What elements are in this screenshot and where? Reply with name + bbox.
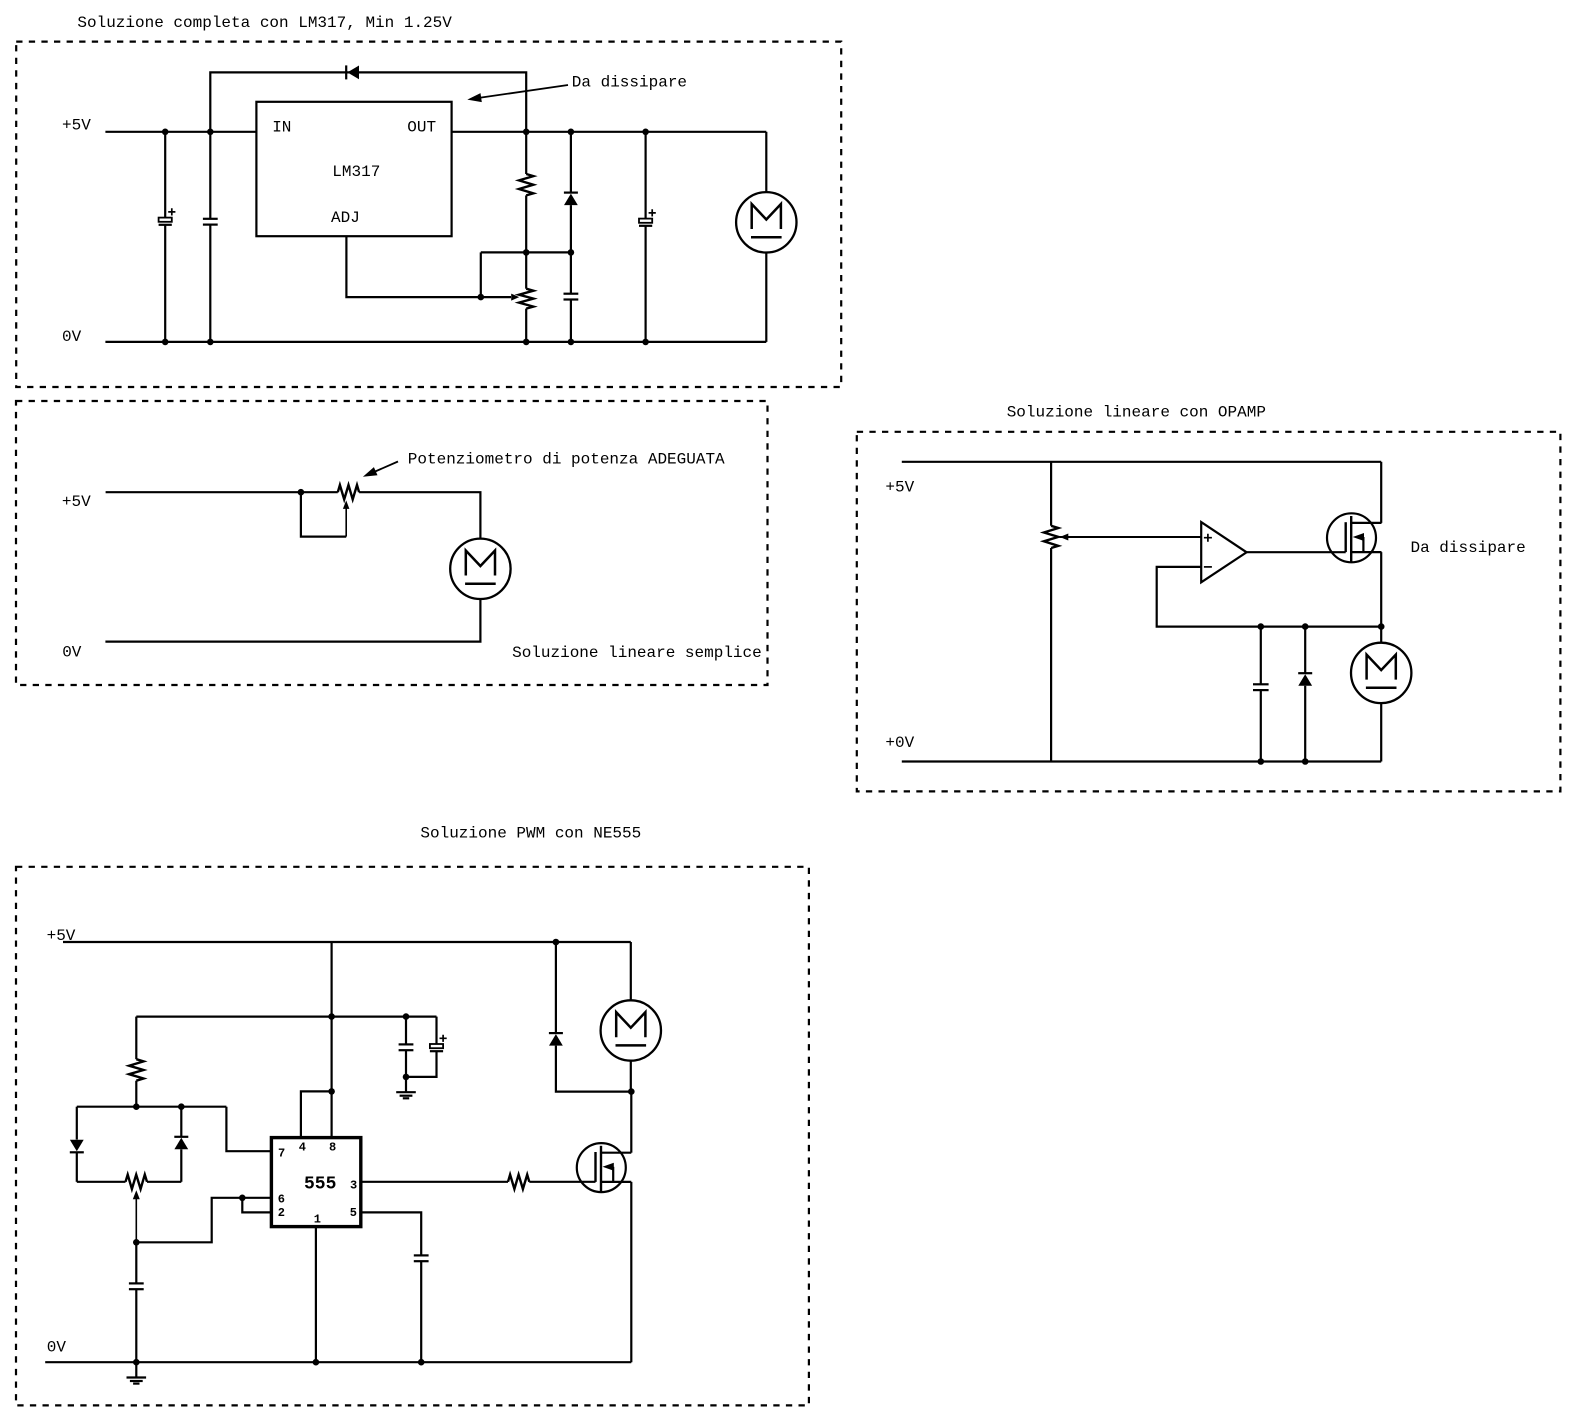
node: junction motor/diode/drain — [628, 1088, 635, 1095]
diode D3 flyback — [1304, 627, 1306, 674]
svg-text:4: 4 — [299, 1140, 306, 1154]
wire +5V rail (circuit 3) — [902, 461, 1381, 463]
node: junction C2 on 0V rail — [207, 339, 214, 346]
resistor R3 charge — [135, 1017, 137, 1060]
node: junction C4 on 0V rail — [642, 339, 649, 346]
wire drain to +5V rail — [1380, 462, 1382, 523]
node: junction R1 on OUT rail — [523, 129, 530, 136]
capacitor C9 control voltage filter — [414, 1254, 429, 1256]
wire drain up to motor node — [630, 1092, 632, 1153]
subcircuit boundary box 4: NE555 PWM solution — [16, 867, 809, 1406]
wire diode row to PWM potentiometer ends — [77, 1181, 182, 1183]
wire from potentiometer to motor (circuit 2) — [359, 492, 480, 538]
subcircuit boundary box 1: LM317 solution — [16, 42, 841, 387]
wiper arrow of potentiometer P2 — [1060, 534, 1069, 541]
svg-text:+5V: +5V — [62, 117, 91, 135]
node: junction wiper/cap/threshold — [133, 1239, 140, 1246]
arrow pointing to LM317 as element to dissipate — [478, 85, 568, 98]
wire wiper down to threshold node — [135, 1198, 137, 1242]
node: junction R2 on 0V rail — [523, 339, 530, 346]
svg-text:+5V: +5V — [62, 493, 91, 511]
wire riser from ADJ wire to node row — [480, 252, 482, 297]
wire wiper to op-amp non-inverting input — [1060, 536, 1202, 538]
wire threshold node to pins 6 and 2 — [136, 1198, 271, 1243]
wire timing branch from Vcc riser to decoupling caps — [136, 1015, 436, 1017]
svg-text:LM317: LM317 — [332, 163, 380, 181]
subcircuit boundary box 3: OPAMP linear solution — [857, 432, 1561, 792]
wire from input rail up and over to OUT (protection diode branch) — [210, 72, 526, 131]
diode D4 steering (discharge) — [76, 1107, 78, 1140]
node: junction wiper tap — [298, 489, 305, 496]
node: junction C2/diode branch on +5V rail — [207, 129, 214, 136]
wire from ADJ pin of LM317 — [346, 236, 480, 297]
ground symbol on 0V rail — [135, 1362, 137, 1377]
svg-text:2: 2 — [278, 1206, 285, 1220]
timer U3 555 — [271, 1138, 360, 1227]
wire pin 1 to 0V rail — [315, 1227, 317, 1363]
svg-text:Da dissipare: Da dissipare — [572, 74, 687, 92]
wire +5V rail to potentiometer (circuit 2) — [106, 491, 338, 493]
wire pin 4 reset tie to Vcc — [301, 1091, 332, 1136]
capacitor C6 timing — [135, 1242, 137, 1283]
transistor Q1 MOSFET (da dissipare) — [1327, 513, 1376, 562]
motor M3 — [1380, 627, 1382, 643]
diode D6 flyback across motor — [555, 942, 557, 1033]
svg-text:7: 7 — [278, 1146, 285, 1160]
capacitor C8 electrolytic supply — [435, 1017, 437, 1044]
svg-text:5: 5 — [350, 1206, 357, 1220]
motor M4 — [630, 942, 632, 1000]
node: junction D2 on OUT rail — [568, 129, 575, 136]
wiper arrow of potentiometer P3 — [133, 1190, 140, 1199]
node: junction motor on source node — [1378, 623, 1385, 630]
svg-text:1: 1 — [314, 1212, 321, 1226]
resistor R4 gate — [508, 1175, 529, 1189]
capacitor C7 supply decoupling — [405, 1017, 407, 1045]
svg-text:+0V: +0V — [885, 734, 914, 752]
svg-text:555: 555 — [304, 1174, 336, 1194]
wire 0V rail (circuit 3) — [902, 760, 1381, 762]
svg-text:IN: IN — [272, 119, 291, 137]
wiper arrow into potentiometer R2 — [481, 296, 511, 298]
wire pin 5 to filter cap — [361, 1212, 421, 1255]
node: junction C3 on 0V rail — [568, 339, 575, 346]
svg-text:ADJ: ADJ — [331, 209, 360, 227]
capacitor C2 input bypass — [209, 132, 211, 219]
svg-text:+5V: +5V — [885, 478, 914, 496]
svg-text:Potenziometro di potenza ADEGU: Potenziometro di potenza ADEGUATA — [408, 450, 725, 468]
arrow pointing to potentiometer P1 — [374, 462, 398, 473]
wire steering diode top row — [77, 1106, 227, 1108]
svg-text:0V: 0V — [62, 643, 82, 661]
capacitor C3 adjust bypass — [570, 252, 572, 293]
wire 0V rail (circuit 1) — [105, 341, 766, 343]
node: junction diode on source node — [1302, 623, 1309, 630]
svg-text:Soluzione lineare con OPAMP: Soluzione lineare con OPAMP — [1007, 403, 1266, 421]
svg-text:8: 8 — [329, 1140, 336, 1154]
node: junction pin1 on 0V rail — [313, 1359, 320, 1366]
transistor Q2 MOSFET switch — [577, 1143, 626, 1192]
svg-text:Soluzione completa con LM317,: Soluzione completa con LM317, Min 1.25V — [77, 14, 452, 32]
potentiometer P2 speed set — [1050, 462, 1052, 526]
svg-text:3: 3 — [350, 1179, 357, 1193]
wire source down to motor node — [1380, 552, 1382, 627]
node: junction C4 on OUT rail — [642, 129, 649, 136]
wire pin 3 output to gate resistor — [361, 1181, 508, 1183]
wire pin 2 tie — [242, 1198, 271, 1213]
wire OUT rail (circuit 1) — [452, 131, 767, 133]
node: junction C1 on +5V rail — [162, 129, 169, 136]
node: junction D2/C3 — [568, 249, 575, 256]
wire ADJ node row — [481, 251, 571, 253]
svg-text:Soluzione PWM con NE555: Soluzione PWM con NE555 — [420, 825, 641, 843]
op-amp U2 — [1201, 522, 1246, 582]
motor M2 — [450, 539, 510, 599]
wire source down to 0V rail — [630, 1182, 632, 1362]
node: junction on ADJ wire — [478, 294, 485, 301]
potentiometer R2 adjust — [525, 252, 527, 288]
node: junction pin2 tie on pin6 wire — [239, 1195, 246, 1202]
regulator U1 LM317 — [256, 102, 451, 236]
diode D1 reverse protection across regulator — [345, 65, 347, 79]
node: junction diode on 0V rail — [1302, 758, 1309, 765]
wire gate resistor to MOSFET gate — [529, 1181, 595, 1183]
node: junction timing cap on 0V rail — [133, 1359, 140, 1366]
wire wiper loop (rheostat connection) — [301, 492, 346, 536]
node: junction C1 on 0V rail — [162, 339, 169, 346]
motor M1 — [765, 132, 767, 192]
wire motor to 0V rail (circuit 2) — [105, 599, 480, 642]
node: junction cap on 0V rail — [1258, 758, 1265, 765]
svg-text:6: 6 — [278, 1192, 285, 1206]
wire op-amp output to MOSFET gate — [1247, 551, 1346, 553]
node: junction pin5 cap on 0V rail — [418, 1359, 425, 1366]
wire +5V rail (circuit 4) — [63, 941, 631, 943]
capacitor C4 electrolytic output — [644, 132, 646, 219]
capacitor C5 motor snubber — [1260, 627, 1262, 685]
node: junction reset tie on Vcc riser — [328, 1088, 335, 1095]
node: junction caps to ground stub — [403, 1074, 410, 1081]
node: junction R3 on diode row — [133, 1103, 140, 1110]
svg-text:Soluzione lineare semplice: Soluzione lineare semplice — [512, 644, 762, 662]
svg-text:0V: 0V — [62, 328, 82, 346]
subcircuit boundary box 2: simple linear solution — [16, 401, 768, 685]
potentiometer P3 duty cycle — [126, 1175, 148, 1189]
node: junction right diode on diode row — [178, 1103, 185, 1110]
node: junction timing feed on Vcc riser — [328, 1013, 335, 1020]
diode D2 output protection — [570, 132, 572, 193]
node: junction cap on source node — [1258, 623, 1265, 630]
resistor R1 feedback upper — [525, 132, 527, 174]
capacitor C1 electrolytic input — [164, 132, 166, 218]
svg-text:0V: 0V — [47, 1339, 67, 1357]
svg-text:OUT: OUT — [407, 119, 436, 137]
wire pin 7 discharge — [226, 1107, 271, 1152]
node: junction R1/pot — [523, 249, 530, 256]
ground symbol below decoupling caps — [405, 1077, 407, 1092]
node: junction flyback diode tap on +5V rail — [553, 939, 560, 946]
wire Vcc riser to pin 8 — [331, 942, 333, 1137]
wire 0V rail (circuit 4) — [45, 1361, 631, 1363]
wire +5V rail (circuit 1) — [105, 131, 256, 133]
node: junction decoupling caps tap — [403, 1013, 410, 1020]
wire feedback from source node to inverting input — [1157, 567, 1382, 627]
svg-text:Da dissipare: Da dissipare — [1411, 539, 1526, 557]
diode D5 steering (charge) — [180, 1107, 182, 1137]
wiper arrow of potentiometer P1 — [343, 500, 350, 509]
potentiometer P1 power rheostat — [338, 485, 359, 499]
